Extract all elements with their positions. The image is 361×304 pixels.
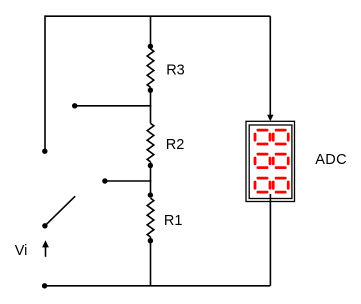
node lower tap terminal — [102, 178, 107, 183]
wire ADC output — [269, 194, 271, 286]
wire bottom rail — [45, 285, 271, 287]
ADC U1 outer box — [246, 121, 295, 201]
resistor R3 — [147, 49, 154, 88]
node upper tap terminal — [72, 103, 77, 108]
display digit row1 left 0 — [255, 130, 270, 144]
wire middle R3 to R2 — [150, 87, 152, 123]
wire upper tap — [75, 105, 152, 107]
wire middle top segment — [150, 16, 152, 49]
display digits — [255, 130, 288, 192]
wire top rail — [45, 15, 270, 17]
svg-text:R3: R3 — [166, 63, 185, 79]
display digit row1 right 0 — [273, 130, 288, 144]
node R2 bottom — [148, 163, 153, 168]
switch SW blade — [45, 196, 75, 226]
switch SW pivot node — [42, 223, 47, 228]
node bottom left terminal — [42, 283, 47, 288]
source Vi arrow — [42, 240, 49, 256]
resistor R2 — [147, 123, 154, 161]
svg-text:Vi: Vi — [15, 243, 28, 259]
node R1 bottom — [148, 238, 153, 243]
arrowhead into ADC — [267, 115, 273, 121]
display digit row3 right 0 — [273, 178, 288, 192]
node R3 bottom — [148, 88, 153, 93]
display digit row2 left 0 — [255, 154, 270, 168]
wire left branch — [44, 15, 46, 151]
svg-text:R1: R1 — [164, 213, 183, 229]
node switch upper terminal — [42, 149, 47, 154]
node R3 top — [148, 44, 153, 49]
display digit row2 right 0 — [273, 154, 288, 168]
svg-text:ADC: ADC — [315, 152, 347, 168]
wire right branch into ADC — [269, 16, 271, 115]
ADC U1 inner box — [249, 125, 292, 199]
svg-text:R2: R2 — [166, 137, 185, 153]
wire middle bottom segment — [150, 237, 152, 286]
wire middle R2 to R1 — [150, 162, 152, 195]
node R1 top — [148, 192, 153, 197]
display digit row3 left 0 — [255, 178, 270, 192]
resistor R1 — [147, 198, 154, 237]
wire lower tap — [105, 180, 151, 182]
